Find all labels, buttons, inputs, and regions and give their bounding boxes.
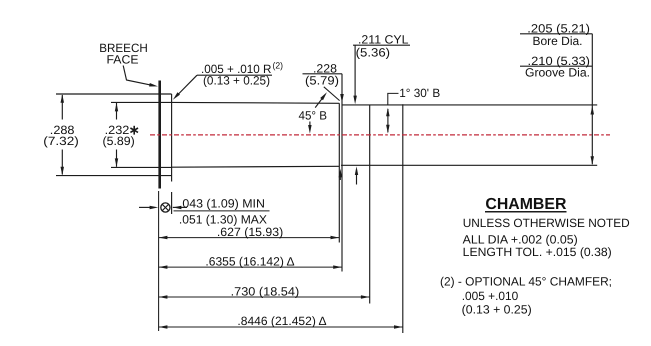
svg-text:Groove Dia.: Groove Dia. [525, 66, 590, 80]
svg-text:(5.79): (5.79) [305, 74, 339, 88]
svg-text:(5.89): (5.89) [103, 134, 135, 148]
svg-text:.005 +.010: .005 +.010 [462, 289, 519, 303]
svg-text:.043 (1.09) MIN: .043 (1.09) MIN [179, 197, 265, 211]
svg-text:(0.13 + 0.25): (0.13 + 0.25) [203, 74, 270, 88]
svg-text:.627 (15.93): .627 (15.93) [217, 225, 283, 239]
svg-text:45° B: 45° B [299, 108, 328, 122]
svg-text:UNLESS OTHERWISE NOTED: UNLESS OTHERWISE NOTED [463, 216, 630, 230]
svg-text:LENGTH TOL. +.015 (0.38): LENGTH TOL. +.015 (0.38) [463, 245, 612, 259]
svg-text:1° 30' B: 1° 30' B [399, 86, 440, 100]
svg-text:.8446 (21.452) Δ: .8446 (21.452) Δ [237, 314, 326, 328]
svg-text:.730 (18.54): .730 (18.54) [231, 285, 300, 299]
svg-text:(5.36): (5.36) [356, 45, 391, 59]
svg-text:ALL DIA +.002 (0.05): ALL DIA +.002 (0.05) [463, 232, 578, 246]
svg-text:FACE: FACE [107, 53, 139, 67]
svg-text:(0.13 + 0.25): (0.13 + 0.25) [462, 303, 532, 317]
svg-text:CHAMBER: CHAMBER [485, 196, 566, 213]
svg-text:(2) - OPTIONAL 45° CHAMFER;: (2) - OPTIONAL 45° CHAMFER; [440, 274, 612, 288]
svg-text:(2): (2) [273, 61, 284, 71]
svg-text:Bore Dia.: Bore Dia. [533, 34, 583, 48]
svg-text:(7.32): (7.32) [43, 134, 79, 148]
svg-text:.6355 (16.142) Δ: .6355 (16.142) Δ [205, 255, 294, 269]
